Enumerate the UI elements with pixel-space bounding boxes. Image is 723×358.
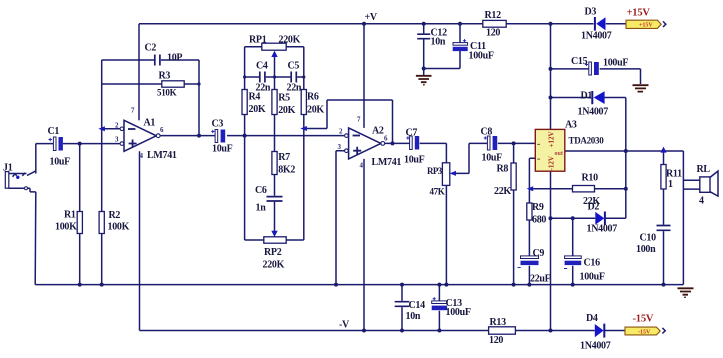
svg-text:10n: 10n	[431, 37, 446, 48]
svg-text:100K: 100K	[108, 222, 130, 233]
svg-text:C5: C5	[288, 61, 300, 72]
svg-text:7: 7	[357, 116, 361, 124]
svg-text:R10: R10	[582, 173, 599, 184]
svg-text:120: 120	[489, 335, 503, 346]
svg-text:C7: C7	[406, 128, 418, 139]
svg-text:1N4007: 1N4007	[578, 107, 609, 118]
svg-text:+15V: +15V	[639, 23, 653, 29]
svg-text:-15V: -15V	[633, 314, 654, 325]
svg-text:22uF: 22uF	[530, 274, 551, 285]
svg-text:-V: -V	[339, 320, 350, 331]
svg-text:J1: J1	[3, 163, 13, 174]
svg-text:10P: 10P	[167, 53, 182, 64]
svg-text:220K: 220K	[279, 35, 301, 46]
svg-text:R1: R1	[64, 210, 76, 221]
svg-text:R7: R7	[278, 152, 290, 163]
svg-text:RL: RL	[697, 164, 711, 175]
svg-text:RP1: RP1	[249, 35, 267, 46]
svg-text:100n: 100n	[636, 244, 656, 255]
svg-text:100uF: 100uF	[469, 51, 494, 62]
svg-text:220K: 220K	[263, 260, 285, 271]
svg-text:R5: R5	[278, 93, 290, 104]
svg-text:510K: 510K	[157, 88, 177, 98]
svg-text:R13: R13	[490, 317, 507, 328]
svg-text:1: 1	[668, 179, 673, 190]
svg-text:1N4007: 1N4007	[580, 341, 611, 352]
svg-text:3: 3	[115, 136, 119, 144]
svg-text:1N4007: 1N4007	[581, 31, 612, 42]
svg-text:R2: R2	[109, 210, 121, 221]
svg-text:R6: R6	[307, 92, 319, 103]
svg-text:C6: C6	[255, 185, 267, 196]
svg-text:10uF: 10uF	[212, 144, 233, 155]
svg-text:2: 2	[339, 128, 343, 136]
svg-text:1N4007: 1N4007	[587, 224, 618, 235]
svg-text:LM741: LM741	[147, 150, 177, 161]
svg-text:C9: C9	[533, 248, 545, 259]
svg-text:10uF: 10uF	[482, 153, 503, 164]
svg-text:C8: C8	[481, 127, 493, 138]
svg-text:A1: A1	[144, 118, 156, 129]
svg-text:100uF: 100uF	[580, 272, 605, 283]
svg-text:4: 4	[699, 196, 704, 207]
svg-text:C16: C16	[584, 258, 601, 269]
svg-text:C4: C4	[256, 61, 268, 72]
svg-text:R11: R11	[666, 169, 682, 180]
svg-text:-15V: -15V	[638, 330, 651, 336]
svg-text:out: out	[555, 151, 563, 157]
svg-text:+12V: +12V	[548, 131, 556, 147]
svg-text:R9: R9	[532, 202, 544, 213]
svg-text:6: 6	[160, 126, 164, 134]
svg-text:C10: C10	[640, 233, 657, 244]
svg-text:100uF: 100uF	[603, 58, 628, 69]
svg-text:10uF: 10uF	[404, 155, 425, 166]
svg-text:R12: R12	[485, 10, 502, 21]
svg-text:7: 7	[131, 107, 135, 115]
svg-text:LM741: LM741	[372, 157, 402, 168]
svg-text:3: 3	[338, 143, 342, 151]
svg-text:10n: 10n	[406, 311, 421, 322]
svg-text:20K: 20K	[278, 105, 295, 116]
svg-text:R8: R8	[497, 164, 509, 175]
svg-text:RP2: RP2	[264, 247, 282, 258]
svg-text:C3: C3	[212, 119, 224, 130]
svg-text:A3: A3	[565, 120, 577, 131]
svg-text:1n: 1n	[256, 203, 267, 214]
svg-text:RP3: RP3	[427, 166, 443, 176]
svg-text:R3: R3	[159, 71, 171, 82]
svg-text:2: 2	[115, 122, 119, 130]
svg-text:6: 6	[384, 135, 388, 143]
svg-text:D3: D3	[585, 7, 597, 18]
svg-text:+15V: +15V	[627, 8, 651, 19]
svg-text:20K: 20K	[307, 105, 324, 116]
svg-text:TDA2030: TDA2030	[569, 136, 605, 146]
svg-text:47K: 47K	[430, 187, 445, 197]
svg-text:C2: C2	[145, 43, 157, 54]
svg-text:20K: 20K	[249, 104, 266, 115]
svg-text:+V: +V	[365, 12, 378, 23]
svg-text:C1: C1	[48, 126, 60, 137]
svg-text:100K: 100K	[55, 222, 77, 233]
svg-text:C15: C15	[571, 56, 588, 67]
svg-text:D2: D2	[588, 202, 600, 213]
svg-text:A2: A2	[372, 126, 384, 137]
svg-text:680: 680	[532, 215, 546, 226]
svg-text:C14: C14	[409, 300, 426, 311]
svg-text:8K2: 8K2	[278, 165, 295, 176]
svg-text:D1: D1	[581, 91, 593, 102]
svg-text:R4: R4	[249, 92, 261, 103]
svg-text:-12V: -12V	[548, 156, 556, 170]
svg-text:22K: 22K	[494, 186, 511, 197]
svg-text:D4: D4	[586, 313, 598, 324]
svg-text:4: 4	[140, 152, 144, 160]
svg-text:120: 120	[486, 28, 500, 39]
svg-text:100uF: 100uF	[446, 307, 471, 318]
svg-text:10uF: 10uF	[50, 157, 71, 168]
svg-text:4: 4	[360, 162, 364, 170]
